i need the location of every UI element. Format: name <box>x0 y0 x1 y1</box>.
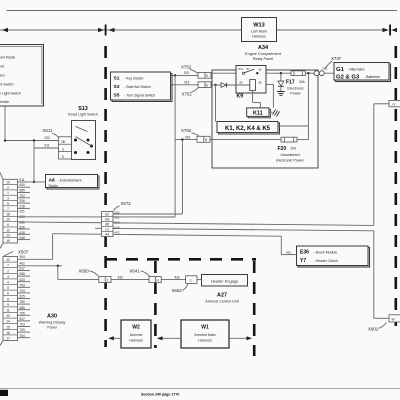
wire 432 into E36 <box>281 236 296 254</box>
label X641 <box>130 268 150 276</box>
svg-text:6: 6 <box>7 223 9 227</box>
node 022 drop <box>181 138 183 140</box>
relays K1 K2 K4 K5 box <box>217 122 280 135</box>
svg-text:A30: A30 <box>47 314 57 320</box>
link box W (page edge) <box>389 315 400 322</box>
svg-text:Relay Panel: Relay Panel <box>253 57 274 61</box>
svg-text:S13 - Road Light Switch: S13 - Road Light Switch <box>0 83 14 87</box>
svg-text:A27: A27 <box>217 293 227 299</box>
svg-text:S13: S13 <box>78 106 88 112</box>
A34 label <box>245 45 282 61</box>
svg-text:685: 685 <box>20 306 26 310</box>
connector X511 pins 2B 3 6 <box>59 137 72 159</box>
wire to K1-K5 box <box>215 85 217 122</box>
svg-text:13: 13 <box>6 234 10 238</box>
svg-text:W: W <box>392 318 395 322</box>
fuse F17 <box>286 71 306 96</box>
header engage switch box <box>202 275 248 287</box>
svg-text:20A: 20A <box>291 147 298 151</box>
svg-text:K11: K11 <box>253 111 263 117</box>
svg-text:685: 685 <box>20 189 26 193</box>
svg-text:753: 753 <box>20 283 26 287</box>
svg-text:20A: 20A <box>299 80 306 84</box>
connector X641 pin H <box>149 277 161 283</box>
svg-text:8: 8 <box>7 297 9 301</box>
connector X737 <box>314 56 342 76</box>
wire F17 to edge <box>305 72 314 74</box>
svg-text:14: 14 <box>6 320 10 324</box>
svg-text:625: 625 <box>20 295 26 299</box>
svg-text:X752: X752 <box>181 64 192 69</box>
svg-text:Engine Compartment: Engine Compartment <box>245 52 282 56</box>
svg-text:X650: X650 <box>79 268 90 273</box>
wire 021 col1 to X572 N3 <box>18 216 176 218</box>
svg-text:B: B <box>205 138 207 142</box>
dashed boundary mid (x=155) <box>154 261 157 348</box>
wire 022 vertical <box>181 140 183 214</box>
wire vertical 021 to X572-N3 <box>174 75 176 217</box>
connector X650 pin 2 <box>99 277 111 283</box>
connector X653 pin 1 <box>186 276 197 284</box>
svg-text:Harness: Harness <box>129 339 143 343</box>
svg-text:402: 402 <box>20 262 26 266</box>
svg-text:17: 17 <box>6 337 10 341</box>
svg-text:W1: W1 <box>201 325 209 331</box>
page corner mark <box>0 390 8 396</box>
svg-text:Armrest Control Unit: Armrest Control Unit <box>205 300 238 304</box>
svg-text:Y7: Y7 <box>300 258 306 264</box>
svg-text:3: 3 <box>7 275 9 279</box>
svg-text:N3: N3 <box>105 218 109 222</box>
E36 brush module box <box>297 246 370 267</box>
label X511 <box>43 128 59 138</box>
svg-text:6: 6 <box>62 155 64 159</box>
wire riser F20 <box>307 73 309 139</box>
svg-text:A34: A34 <box>258 45 269 51</box>
svg-text:S3: S3 <box>114 84 120 90</box>
svg-text:16: 16 <box>6 331 10 335</box>
wire 511 to switch <box>34 144 59 148</box>
svg-text:F20: F20 <box>278 146 287 152</box>
wire X737 to G1 <box>324 72 334 74</box>
svg-text:E: E <box>206 84 208 88</box>
wire B to F20 <box>210 139 281 141</box>
svg-text:402: 402 <box>115 230 120 234</box>
svg-text:86: 86 <box>259 81 263 85</box>
svg-text:S1 - Key Light Switch: S1 - Key Light Switch <box>0 100 9 104</box>
svg-text:633: 633 <box>20 278 26 282</box>
svg-text:5: 5 <box>7 202 9 206</box>
svg-text:15: 15 <box>6 239 10 243</box>
svg-text:13: 13 <box>6 314 10 318</box>
svg-text:11: 11 <box>6 309 10 313</box>
G1 G2 G3 battery box <box>334 63 391 82</box>
svg-text:X653: X653 <box>172 288 183 293</box>
svg-text:022: 022 <box>115 210 120 214</box>
svg-text:709: 709 <box>20 328 26 332</box>
wire into header engage <box>197 279 202 281</box>
label X601 <box>368 323 387 332</box>
svg-text:87a: 87a <box>239 67 244 71</box>
svg-text:705: 705 <box>20 311 26 315</box>
svg-text:702: 702 <box>20 194 26 198</box>
svg-text:3: 3 <box>7 197 9 201</box>
column 2 stubs and labels <box>18 255 31 338</box>
wire 020 col1 through X572 A5 to right rail <box>18 222 374 226</box>
wire 904 riser <box>18 234 53 260</box>
K9 coil output wires <box>253 85 274 108</box>
W2 armrest harness box <box>121 320 151 348</box>
S13 road light switch label <box>68 106 98 117</box>
relay K11 <box>247 108 271 118</box>
svg-text:S1: S1 <box>114 76 120 82</box>
svg-text:703: 703 <box>20 323 26 327</box>
svg-text:G1: G1 <box>336 67 345 73</box>
svg-text:638: 638 <box>20 272 26 276</box>
svg-text:X507: X507 <box>18 250 29 255</box>
wire from legend drop <box>4 106 6 141</box>
svg-text:206: 206 <box>20 199 26 203</box>
svg-text:432: 432 <box>286 250 291 254</box>
svg-text:021: 021 <box>115 215 120 219</box>
svg-text:X572: X572 <box>121 201 132 206</box>
svg-text:4: 4 <box>7 281 9 285</box>
wire 511 vertical <box>33 141 35 182</box>
page top border <box>7 10 398 12</box>
harness arrows <box>108 336 252 340</box>
svg-text:A8: A8 <box>49 178 56 184</box>
svg-text:1: 1 <box>7 191 9 195</box>
svg-text:9: 9 <box>7 303 9 307</box>
svg-text:2B: 2B <box>61 140 65 144</box>
wire F20 to riser <box>297 139 308 141</box>
wire 511 row19 to A8 <box>18 181 46 183</box>
svg-text:A4: A4 <box>105 233 109 237</box>
wire 432 a <box>111 275 149 279</box>
ground symbol <box>277 92 285 96</box>
connector X752 pin B <box>197 136 210 142</box>
svg-text:2: 2 <box>7 269 9 273</box>
svg-text:10: 10 <box>6 218 10 222</box>
ground for K11 <box>269 110 280 117</box>
node 511 <box>33 181 35 183</box>
svg-text:X641: X641 <box>130 268 141 273</box>
svg-text:Header Engage: Header Engage <box>211 278 238 283</box>
connector X572 <box>102 212 114 237</box>
svg-text:021: 021 <box>184 71 190 75</box>
svg-text:5: 5 <box>7 286 9 290</box>
svg-text:Left Main: Left Main <box>251 30 267 34</box>
column 1 wire stubs and labels <box>18 178 31 240</box>
A8 entertainment radio box <box>46 175 100 190</box>
label X751 <box>182 88 199 97</box>
wire 021 main feed inside A34 <box>211 72 291 74</box>
svg-text:Power: Power <box>290 92 301 96</box>
svg-text:K1, K2, K4 & K5: K1, K2, K4 & K5 <box>225 126 271 132</box>
page footer line <box>0 388 400 390</box>
svg-text:F17: F17 <box>286 80 295 86</box>
dashed boundary right (x=395) <box>394 46 397 326</box>
svg-text:Unswitched: Unswitched <box>280 153 299 157</box>
diode and ground branch right of K9 <box>278 72 284 92</box>
harness span line with arrows <box>0 25 397 36</box>
label X572 <box>114 201 132 211</box>
svg-text:X751: X751 <box>182 91 193 96</box>
svg-text:E36: E36 <box>300 250 309 256</box>
svg-text:904: 904 <box>20 255 26 259</box>
svg-text:- Alternator: - Alternator <box>348 67 366 71</box>
svg-text:628: 628 <box>20 231 26 235</box>
svg-text:765: 765 <box>20 300 26 304</box>
connector X751 pin E <box>198 82 211 88</box>
svg-text:630: 630 <box>20 183 26 187</box>
label X752 lower <box>181 128 199 136</box>
relay K9 <box>236 66 266 100</box>
svg-text:626: 626 <box>20 226 26 230</box>
connector X752 pin E <box>198 73 211 79</box>
svg-text:022: 022 <box>185 135 191 139</box>
W1 armrest main harness box <box>181 320 229 348</box>
svg-text:- Brush Module: - Brush Module <box>314 250 338 254</box>
svg-text:648: 648 <box>20 236 26 240</box>
svg-text:Harness: Harness <box>252 35 266 39</box>
svg-text:12: 12 <box>6 228 10 232</box>
svg-text:Panel: Panel <box>47 326 57 330</box>
A27 armrest control unit label <box>205 293 238 304</box>
wire 85 coil feed inside A34 <box>211 83 250 88</box>
svg-text:W2: W2 <box>132 325 140 331</box>
svg-text:X601: X601 <box>368 326 379 331</box>
svg-text:Armrest Main: Armrest Main <box>194 333 215 337</box>
svg-text:432: 432 <box>175 275 181 279</box>
svg-text:218: 218 <box>20 204 26 208</box>
right rail wire from G fuse link <box>374 104 389 318</box>
svg-text:E: E <box>206 74 208 78</box>
A30 warning display panel label <box>39 314 66 330</box>
svg-text:19: 19 <box>6 181 10 185</box>
svg-text:7: 7 <box>7 264 9 268</box>
svg-text:021: 021 <box>20 210 26 214</box>
wire 022 to B <box>175 139 197 141</box>
node F20 riser <box>307 72 309 74</box>
svg-text:617: 617 <box>20 317 26 321</box>
svg-text:6: 6 <box>7 292 9 296</box>
wire 624 X572 L2 to right rail <box>95 228 374 231</box>
A34 engine compartment relay panel box <box>212 70 318 168</box>
connector A30 plug (column 1) <box>0 173 18 249</box>
wire 022 X572 62 <box>113 213 182 215</box>
svg-text:013: 013 <box>184 80 190 84</box>
svg-text:- Start Aid Switch: - Start Aid Switch <box>124 85 151 89</box>
svg-text:Warning Display: Warning Display <box>39 321 66 325</box>
svg-text:617: 617 <box>20 267 26 271</box>
svg-text:7: 7 <box>7 207 9 211</box>
svg-text:L2: L2 <box>105 228 109 232</box>
dashed boundary horizontal (y=259) <box>105 258 256 261</box>
svg-text:- Key Switch: - Key Switch <box>124 76 144 80</box>
svg-text:A5: A5 <box>105 223 109 227</box>
svg-text:G2 & G3: G2 & G3 <box>336 75 360 81</box>
svg-text:704: 704 <box>20 289 26 293</box>
svg-text:- Header Clutch: - Header Clutch <box>314 259 339 263</box>
svg-text:Electronic: Electronic <box>287 87 303 91</box>
svg-text:X511: X511 <box>43 128 53 133</box>
svg-text:1: 1 <box>190 279 192 283</box>
svg-text:S20 - Side/Rear Light Switch: S20 - Side/Rear Light Switch <box>0 92 21 96</box>
label X653 <box>172 284 189 293</box>
harness W13 label box <box>242 18 277 42</box>
svg-text:Electronic Power: Electronic Power <box>276 159 304 163</box>
svg-text:X752: X752 <box>181 128 192 133</box>
svg-text:Section 240 page 1770: Section 240 page 1770 <box>141 393 179 397</box>
S1/S3/S5 key switch legend box <box>111 72 173 102</box>
svg-text:12: 12 <box>6 258 10 262</box>
svg-text:Road Light Switch: Road Light Switch <box>68 113 98 117</box>
link box G (page edge) <box>389 100 400 106</box>
svg-text:A30 - Control Unit: A30 - Control Unit <box>0 65 4 69</box>
svg-text:020: 020 <box>115 220 120 224</box>
svg-text:Harness: Harness <box>198 339 212 343</box>
svg-text:K9: K9 <box>237 94 244 100</box>
svg-text:754: 754 <box>20 334 26 338</box>
svg-text:511: 511 <box>45 144 50 148</box>
connector X507 (column 2) <box>0 252 18 346</box>
svg-text:15: 15 <box>6 325 10 329</box>
node junction 021/X572 drop <box>174 74 176 76</box>
label X752 <box>181 64 198 73</box>
wire 013 into A34 <box>171 84 199 86</box>
svg-text:2: 2 <box>7 186 9 190</box>
svg-text:18: 18 <box>6 212 10 216</box>
svg-text:Radio: Radio <box>49 184 58 188</box>
svg-text:- Turn Signal Switch: - Turn Signal Switch <box>124 93 155 97</box>
wire 021 key feed into A34 <box>171 74 199 76</box>
svg-text:- Entertainment: - Entertainment <box>58 178 82 182</box>
dashed boundary left (x=105) <box>104 46 107 347</box>
svg-text:62: 62 <box>105 213 109 217</box>
svg-text:511: 511 <box>20 178 25 182</box>
svg-text:X737: X737 <box>331 56 342 61</box>
svg-text:S5: S5 <box>114 93 120 99</box>
svg-text:3: 3 <box>62 147 64 151</box>
svg-text:022: 022 <box>45 136 51 140</box>
wire 402 to X650 <box>18 265 99 280</box>
dashed boundary (x=254) <box>253 261 256 356</box>
svg-text:Armrest: Armrest <box>130 333 143 337</box>
wire 904/402 long run to E36 <box>53 234 282 237</box>
svg-text:85: 85 <box>240 81 244 85</box>
switch S13 <box>72 121 96 160</box>
svg-text:A8 - Entertainment Radio: A8 - Entertainment Radio <box>0 56 15 60</box>
svg-text:2: 2 <box>107 279 109 283</box>
wire from K1-K5 to feed <box>278 125 308 127</box>
fuse F20 <box>276 137 304 162</box>
svg-text:30: 30 <box>259 68 263 72</box>
X572 wire labels <box>115 210 120 234</box>
wire 022 to switch <box>4 136 59 142</box>
svg-text:- Batteries: - Batteries <box>364 75 380 79</box>
svg-text:624: 624 <box>115 225 120 229</box>
svg-text:A34 - Relay Board: A34 - Relay Board <box>0 74 5 78</box>
svg-text:W13: W13 <box>253 23 265 29</box>
wire 432 b <box>161 275 185 279</box>
svg-text:432: 432 <box>118 275 124 279</box>
legend box top-left (cropped at page edge) <box>0 45 44 107</box>
label X650 <box>79 268 99 276</box>
